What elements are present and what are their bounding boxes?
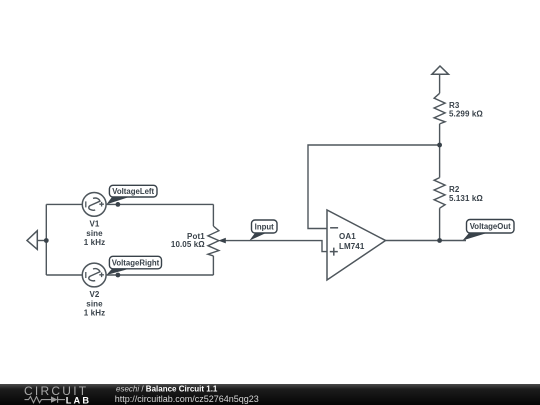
- svg-text:VoltageRight: VoltageRight: [112, 258, 160, 267]
- svg-text:5.131 kΩ: 5.131 kΩ: [449, 194, 483, 203]
- svg-text:Input: Input: [255, 222, 274, 231]
- svg-text:10.05 kΩ: 10.05 kΩ: [171, 240, 205, 249]
- svg-text:R3: R3: [449, 101, 460, 110]
- svg-text:LM741: LM741: [339, 242, 365, 251]
- svg-text:1 kHz: 1 kHz: [84, 309, 105, 318]
- svg-text:VoltageLeft: VoltageLeft: [112, 187, 154, 196]
- svg-text:LAB: LAB: [66, 395, 91, 405]
- svg-text:5.299 kΩ: 5.299 kΩ: [449, 110, 483, 119]
- svg-text:esechi / Balance Circuit 1.1: esechi / Balance Circuit 1.1: [116, 384, 218, 393]
- svg-text:http://circuitlab.com/cz52764n: http://circuitlab.com/cz52764n5qg23: [115, 394, 259, 404]
- svg-text:1 kHz: 1 kHz: [84, 238, 105, 247]
- svg-text:OA1: OA1: [339, 232, 356, 241]
- svg-text:sine: sine: [86, 229, 103, 238]
- svg-text:sine: sine: [86, 300, 103, 309]
- svg-text:V1: V1: [90, 220, 100, 229]
- svg-text:VoltageOut: VoltageOut: [470, 222, 511, 231]
- svg-text:V2: V2: [90, 290, 100, 299]
- svg-text:R2: R2: [449, 185, 460, 194]
